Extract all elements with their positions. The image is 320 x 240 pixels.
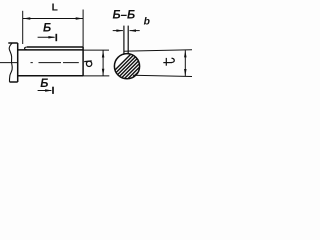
arrowhead t bottom <box>184 69 187 76</box>
collar bottom edge <box>10 81 18 83</box>
arrowhead b left <box>116 29 123 32</box>
arrowhead d top <box>102 50 105 57</box>
dimension d: extension line bottom <box>83 75 109 77</box>
shaft bottom edge <box>18 75 83 77</box>
arrowhead t top <box>184 50 187 57</box>
svg-text:Б: Б <box>43 23 51 35</box>
svg-text:b: b <box>144 16 150 27</box>
section circle of shaft <box>114 54 139 79</box>
dimension d: extension line top <box>83 49 109 51</box>
dimension L: extension line left <box>22 11 24 44</box>
dimension t: line <box>184 50 186 76</box>
hatching of shaft section <box>101 52 180 84</box>
svg-text:L: L <box>52 2 58 13</box>
arrowhead L right <box>76 17 83 20</box>
dimension b: right arrow line <box>130 30 140 32</box>
dimension L: extension line right (above shaft end) <box>82 10 84 48</box>
label d (rotated): ascender stem <box>84 60 92 63</box>
key K1 rounded left end <box>24 47 26 50</box>
centerline of shaft <box>0 62 79 64</box>
arrowhead section B top <box>48 36 55 39</box>
label d (rotated): bowl <box>86 61 91 66</box>
shaft top edge <box>18 49 83 51</box>
key K1 top edge (side view) <box>27 46 83 48</box>
section marker B top: thick tick <box>55 34 57 41</box>
shaft right end edge <box>82 47 84 76</box>
paper background <box>0 0 209 109</box>
label t (rotated): stem <box>163 62 172 64</box>
keyway slot side / b extension line left <box>123 26 125 55</box>
svg-text:Б: Б <box>40 78 48 90</box>
collar right edge <box>17 43 19 82</box>
dimension b: left arrow line <box>113 30 123 32</box>
arrowhead section B bottom <box>45 89 52 92</box>
arrowhead L left <box>23 17 30 20</box>
section marker B top: arrow line <box>38 36 55 38</box>
label t (rotated): crossbar <box>165 58 167 66</box>
section marker B bottom: arrow line <box>38 90 52 92</box>
collar top edge <box>8 42 17 44</box>
dimension d: line <box>102 50 104 76</box>
section marker B bottom: thick tick <box>52 87 54 94</box>
dimension t: extension line bottom <box>133 75 192 76</box>
arrowhead d bottom <box>102 69 105 76</box>
svg-text:Б–Б: Б–Б <box>112 9 135 21</box>
shaft collar (broken hub), wavy break line left edge <box>9 43 12 82</box>
key top line in section + extension for t dimension <box>124 50 192 51</box>
label t (rotated): hook <box>172 58 175 62</box>
keyway slot side / b extension line right <box>127 26 129 55</box>
arrowhead b right <box>129 29 136 32</box>
dimension L: line <box>23 18 83 20</box>
